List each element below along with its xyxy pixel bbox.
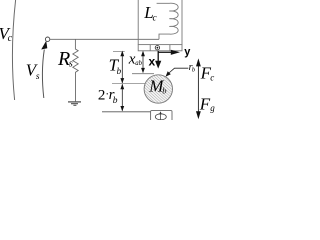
origin marker (z out of page) [155,46,159,50]
svg-text:b: b [113,96,118,106]
magnet body left wall [137,0,139,45]
y axis arrow [159,51,172,53]
dim reference tick for x_ab [132,73,154,75]
svg-text:s: s [69,58,73,69]
sensor symbol [155,114,166,120]
svg-text:b: b [192,67,196,74]
sensor box (bottom) [151,111,172,123]
svg-text:F: F [199,95,211,114]
coil L_c [157,3,179,39]
svg-text:ab: ab [135,60,142,67]
svg-text:x: x [149,54,156,68]
magnet body right wall [181,0,183,45]
leader arrow r_b [168,68,188,73]
dim reference dash at magnet bottom [113,51,125,53]
node (open circle terminal) [45,37,49,41]
svg-text:b: b [117,66,122,76]
magnet bottom bar (pole box) [138,45,182,51]
ground [68,101,81,103]
svg-text:s: s [36,72,40,82]
dimension line T_b / 2rb (left) [121,52,123,111]
dimension line x_ab (right) [142,52,144,72]
x axis arrow (bold, downward) [157,51,159,61]
pole divider left [149,45,151,51]
voltage arrow V_c (long curved arrow, cut off at top) [12,0,15,100]
voltage arrow V_s (curved arrow pointing at node) [42,50,44,99]
dim reference line at ball top level [112,83,146,85]
resistor R_s [73,39,78,101]
svg-text:y: y [184,46,191,58]
pole divider right [169,45,171,51]
svg-text:c: c [153,13,158,23]
wire from node to coil [50,38,159,40]
dim reference line at ball bottom level [102,111,151,113]
svg-text:b: b [162,85,166,95]
svg-text:g: g [210,103,215,113]
svg-text:c: c [8,33,13,44]
force line F_c / F_g [197,60,199,117]
ball M_b (hatched) [144,75,172,103]
svg-text:c: c [210,72,214,82]
